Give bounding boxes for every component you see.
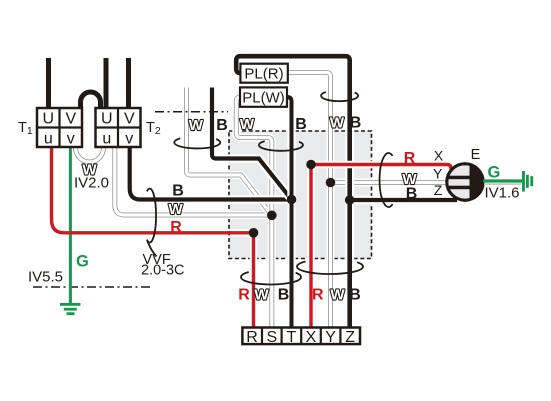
wire: red to motor connector X and down to terminal X xyxy=(311,165,451,330)
wire: white stub to omitted load, down and right into box, diagonal to joint xyxy=(187,88,272,216)
svg-text:B: B xyxy=(350,115,362,132)
wire: green grounding from connector to earth xyxy=(484,183,521,185)
terminal strip R S T X Y Z xyxy=(242,328,360,346)
svg-text:Y: Y xyxy=(325,329,336,346)
svg-text:V: V xyxy=(65,111,76,128)
wire: black KIP line to T1-U xyxy=(46,58,51,108)
cable clamp on strip left cable xyxy=(241,272,301,285)
motor connector (cord connector body) xyxy=(447,164,483,200)
wire: white from PL(R) right, over and down through box to terminal Y xyxy=(288,73,331,330)
transformer terminal block T1 xyxy=(37,108,82,147)
svg-text:2.0-3C: 2.0-3C xyxy=(141,263,185,279)
svg-text:T1: T1 xyxy=(18,120,33,137)
svg-text:W: W xyxy=(169,201,184,218)
cable clamp on motor connector cable (gap right) xyxy=(380,153,393,207)
svg-text:G: G xyxy=(488,163,501,181)
earth symbol left (B-type grounding) xyxy=(60,303,81,315)
wire: black from PL(W) right down through box to terminal T xyxy=(287,97,292,329)
svg-text:U: U xyxy=(101,111,113,128)
svg-text:E: E xyxy=(471,147,481,163)
cable clamp on VVF cable with tail xyxy=(147,188,157,256)
svg-text:R: R xyxy=(404,150,416,167)
transformer terminal block T2 xyxy=(96,108,141,147)
joint: black to Z xyxy=(345,195,355,205)
svg-text:IV1.6: IV1.6 xyxy=(485,185,520,202)
svg-text:B: B xyxy=(349,287,361,304)
svg-text:B: B xyxy=(216,117,228,134)
svg-text:R: R xyxy=(238,287,250,304)
pilot lamp PL(R) xyxy=(240,64,287,83)
svg-text:W: W xyxy=(254,287,269,304)
earth symbol right (motor frame ground) xyxy=(522,171,533,192)
svg-text:Z: Z xyxy=(434,182,443,198)
wire: white jumper loop W IV2.0 between T1-v and T2-u xyxy=(76,146,104,162)
svg-text:S: S xyxy=(266,329,277,346)
joint: black B xyxy=(287,195,297,205)
svg-text:B: B xyxy=(172,182,184,199)
svg-text:R: R xyxy=(312,287,324,304)
svg-text:IV5.5: IV5.5 xyxy=(28,269,63,286)
wire: black KIP line to T2-U xyxy=(104,58,109,108)
cable clamp on strip right cable xyxy=(297,262,363,275)
svg-text:W: W xyxy=(330,115,345,132)
svg-text:Y: Y xyxy=(433,166,443,182)
svg-text:T: T xyxy=(287,329,297,346)
wire: black loop from PL(R) left over top and down through box to terminal Z xyxy=(236,56,350,329)
wire: black to motor connector Z xyxy=(350,196,457,205)
svg-text:B: B xyxy=(295,116,307,133)
svg-text:PL(W): PL(W) xyxy=(242,90,285,107)
svg-text:W: W xyxy=(330,287,345,304)
svg-text:X: X xyxy=(306,329,317,346)
wire: black from T2-v down, right into box to joint xyxy=(130,146,292,200)
wire: white to motor connector Y xyxy=(331,179,449,187)
svg-text:U: U xyxy=(43,111,55,128)
pilot lamp PL(W) xyxy=(240,87,287,106)
wire: green grounding wire from T1-v down to earth xyxy=(69,146,72,304)
joint: red to X xyxy=(306,160,316,170)
wire: white neutral from T2-u down and right into box xyxy=(115,146,272,215)
svg-text:B: B xyxy=(278,287,290,304)
joint: white neutral xyxy=(267,211,277,221)
svg-text:G: G xyxy=(76,253,89,271)
svg-text:v: v xyxy=(125,130,133,147)
junction box (outlet box, dashed) xyxy=(229,131,372,259)
svg-text:Z: Z xyxy=(345,329,355,346)
cable clamp on PL(W) cable xyxy=(259,141,303,151)
svg-text:W: W xyxy=(240,116,255,133)
svg-text:X: X xyxy=(434,148,444,164)
svg-text:T2: T2 xyxy=(146,120,161,137)
boundary of omitted section (dash-dot near T2) xyxy=(155,111,228,113)
wire: black stub to omitted load, down right into box, diagonal to joint xyxy=(212,88,292,200)
svg-text:v: v xyxy=(67,130,75,147)
svg-text:u: u xyxy=(44,130,53,147)
wire: white from PL(W) left, down into box to joint, down to terminal S xyxy=(236,97,271,329)
wire: red from T1-u down, right into box to joint xyxy=(52,146,229,233)
svg-text:PL(R): PL(R) xyxy=(244,66,283,83)
dash-dot line at IV5.5 ground xyxy=(33,286,151,288)
svg-text:IV2.0: IV2.0 xyxy=(74,175,109,192)
svg-text:B: B xyxy=(406,186,418,203)
svg-text:V: V xyxy=(124,111,135,128)
cable clamp under T2 stubs xyxy=(174,138,220,148)
wire: black KIP line to T2-V xyxy=(126,58,131,108)
svg-text:R: R xyxy=(246,329,258,346)
wire: red down to terminal R xyxy=(250,233,258,329)
svg-text:u: u xyxy=(102,130,111,147)
joint: red R xyxy=(249,228,259,238)
svg-text:R: R xyxy=(170,219,182,236)
svg-text:W: W xyxy=(189,117,204,134)
wire: black jumper loop T1-V to T2-U xyxy=(81,92,101,108)
cable clamp on PL(R) cable xyxy=(321,92,358,101)
joint: white to Y xyxy=(326,178,336,188)
